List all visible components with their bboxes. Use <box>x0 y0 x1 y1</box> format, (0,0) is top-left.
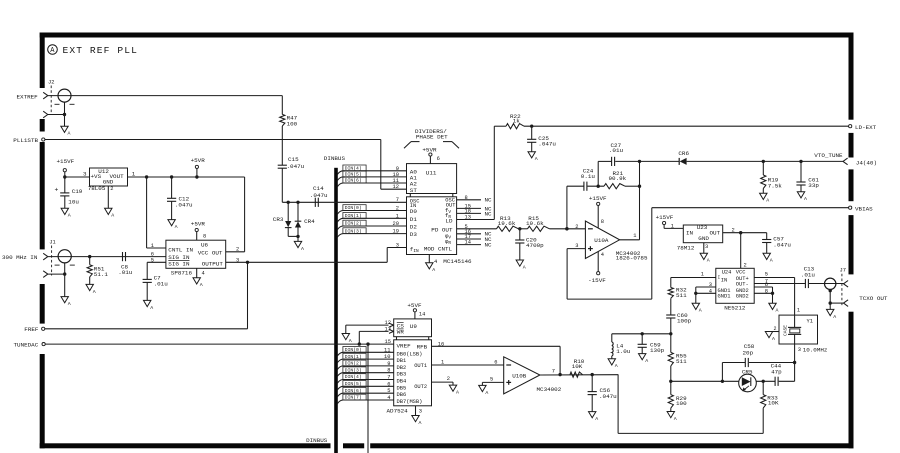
svg-text:NC: NC <box>485 242 493 249</box>
svg-text:33p: 33p <box>808 182 819 189</box>
svg-text:90.9k: 90.9k <box>609 175 627 182</box>
svg-text:.01u: .01u <box>154 280 169 287</box>
svg-text:A: A <box>68 301 71 307</box>
svg-text:A: A <box>699 308 702 314</box>
svg-text:GND1: GND1 <box>718 294 731 300</box>
svg-text:A: A <box>432 267 435 273</box>
svg-text:A: A <box>68 131 71 137</box>
svg-text:511: 511 <box>676 292 687 299</box>
svg-text:+5VF: +5VF <box>407 302 422 309</box>
svg-text:DB7(MSB): DB7(MSB) <box>397 399 423 405</box>
svg-text:U9: U9 <box>410 323 418 330</box>
svg-text:4: 4 <box>434 259 437 265</box>
svg-text:DB3: DB3 <box>397 372 407 378</box>
svg-text:NE5212: NE5212 <box>724 305 746 312</box>
svg-text:1.0u: 1.0u <box>616 348 631 355</box>
svg-text:1: 1 <box>441 359 444 365</box>
svg-text:A: A <box>349 338 352 344</box>
svg-text:U24: U24 <box>722 269 732 275</box>
svg-text:+VS: +VS <box>91 173 102 180</box>
svg-text:A: A <box>93 289 96 295</box>
svg-text:A: A <box>595 416 598 422</box>
svg-text:D1: D1 <box>410 216 418 223</box>
svg-text:SP8716: SP8716 <box>171 270 193 277</box>
svg-text:78L05: 78L05 <box>88 185 106 192</box>
svg-text:FREF: FREF <box>24 326 39 333</box>
svg-text:A: A <box>770 258 773 264</box>
svg-text:2: 2 <box>236 247 239 253</box>
svg-text:+5VR: +5VR <box>191 157 206 164</box>
svg-text:U6: U6 <box>201 242 209 249</box>
svg-text:3: 3 <box>798 347 801 353</box>
svg-text:1: 1 <box>132 170 136 177</box>
svg-text:100: 100 <box>287 120 298 127</box>
svg-text:.047u: .047u <box>287 163 305 170</box>
svg-text:7: 7 <box>387 375 390 381</box>
svg-text:A: A <box>150 305 153 311</box>
svg-text:13: 13 <box>385 326 391 332</box>
svg-text:8: 8 <box>387 368 390 374</box>
svg-text:+: + <box>55 187 59 194</box>
svg-text:MC145146: MC145146 <box>443 258 472 265</box>
svg-text:DIN(3): DIN(3) <box>345 367 362 373</box>
svg-text:4: 4 <box>202 271 205 277</box>
svg-text:DB4: DB4 <box>397 379 407 385</box>
svg-text:10: 10 <box>393 172 399 178</box>
svg-text:10.0MHz: 10.0MHz <box>803 346 828 353</box>
svg-text:19.6k: 19.6k <box>526 220 544 227</box>
svg-text:C19: C19 <box>72 188 83 195</box>
svg-text:-15VF: -15VF <box>588 277 606 284</box>
svg-text:2: 2 <box>744 262 747 268</box>
svg-text:DIN(2): DIN(2) <box>345 361 362 367</box>
svg-text:J1: J1 <box>49 240 55 246</box>
svg-text:1: 1 <box>151 243 154 249</box>
svg-text:19: 19 <box>393 229 399 235</box>
svg-text:CNTL IN: CNTL IN <box>168 246 193 253</box>
svg-text:A: A <box>772 336 775 342</box>
svg-text:A: A <box>766 198 769 204</box>
svg-text:J7: J7 <box>840 268 846 274</box>
svg-text:OUT-: OUT- <box>736 282 749 288</box>
svg-text:A: A <box>301 246 304 252</box>
svg-text:A: A <box>645 358 648 364</box>
svg-text:19.6k: 19.6k <box>498 220 516 227</box>
svg-text:1: 1 <box>633 233 636 239</box>
svg-text:DIN(5): DIN(5) <box>345 381 362 387</box>
svg-text:RFB: RFB <box>417 344 428 351</box>
svg-text:10K: 10K <box>572 363 583 370</box>
svg-text:NC: NC <box>485 197 493 204</box>
svg-text:4700p: 4700p <box>526 242 544 249</box>
svg-text:6: 6 <box>494 359 497 365</box>
svg-text:DINBUS: DINBUS <box>324 155 346 162</box>
svg-text:2: 2 <box>447 376 450 382</box>
svg-text:A: A <box>615 363 618 369</box>
svg-text:.047u: .047u <box>175 202 193 209</box>
svg-text:2: 2 <box>732 227 735 233</box>
svg-text:100p: 100p <box>677 318 692 325</box>
svg-text:.047u: .047u <box>538 140 556 147</box>
svg-text:DIN(4): DIN(4) <box>345 374 362 380</box>
svg-text:DIN(6): DIN(6) <box>345 388 362 394</box>
svg-text:TUNEDAC: TUNEDAC <box>14 342 39 349</box>
svg-text:A: A <box>523 264 526 270</box>
svg-text:2: 2 <box>110 186 113 192</box>
svg-text:100: 100 <box>676 400 687 407</box>
svg-text:VCC: VCC <box>736 269 746 275</box>
svg-text:78M12: 78M12 <box>677 244 695 251</box>
svg-text:5: 5 <box>387 388 390 394</box>
svg-text:7.5k: 7.5k <box>768 182 783 189</box>
svg-text:4: 4 <box>601 252 604 258</box>
svg-text:DIN(3): DIN(3) <box>345 228 362 234</box>
svg-text:8: 8 <box>203 233 206 239</box>
svg-text:51.1: 51.1 <box>94 271 109 278</box>
svg-text:A: A <box>485 390 488 396</box>
svg-text:1826-0785: 1826-0785 <box>616 255 648 262</box>
svg-text:9: 9 <box>387 361 390 367</box>
svg-text:OUT2: OUT2 <box>414 384 427 390</box>
svg-text:5: 5 <box>765 272 768 278</box>
svg-text:VTO_TUNE: VTO_TUNE <box>814 152 843 159</box>
svg-text:PD OUT: PD OUT <box>431 226 453 233</box>
svg-text:CR3: CR3 <box>273 216 284 223</box>
svg-text:6: 6 <box>437 156 440 162</box>
svg-text:130p: 130p <box>650 347 665 354</box>
svg-text:A: A <box>804 196 807 202</box>
svg-text:D0: D0 <box>410 208 418 215</box>
svg-text:5: 5 <box>490 377 493 383</box>
svg-text:DB0(LSB): DB0(LSB) <box>397 351 423 357</box>
svg-text:DB5: DB5 <box>397 385 407 391</box>
svg-text:3: 3 <box>83 170 87 177</box>
svg-text:EXT REF PLL: EXT REF PLL <box>63 45 138 56</box>
svg-text:ST: ST <box>410 187 418 194</box>
svg-text:LD-EXT: LD-EXT <box>855 124 877 131</box>
svg-text:+5VR: +5VR <box>191 221 206 228</box>
svg-text:U10A: U10A <box>594 237 609 244</box>
svg-text:0.1u: 0.1u <box>581 173 596 180</box>
svg-text:WR: WR <box>397 329 405 336</box>
svg-text:SIG IN: SIG IN <box>168 261 190 268</box>
svg-text:A: A <box>175 224 178 230</box>
svg-text:DIN(5): DIN(5) <box>345 172 362 178</box>
svg-text:20p: 20p <box>743 349 754 356</box>
svg-text:.01u: .01u <box>609 147 624 154</box>
svg-text:A: A <box>535 156 538 162</box>
svg-text:A: A <box>200 282 203 288</box>
svg-text:DIN(6): DIN(6) <box>345 178 362 184</box>
svg-text:7: 7 <box>552 369 555 375</box>
svg-text:DIN(0): DIN(0) <box>345 205 362 211</box>
svg-text:A: A <box>707 258 710 264</box>
svg-text:3: 3 <box>396 242 399 248</box>
svg-text:OUTPUT: OUTPUT <box>202 261 224 268</box>
svg-text:6: 6 <box>387 381 390 387</box>
svg-text:9: 9 <box>396 166 399 172</box>
svg-text:3: 3 <box>575 243 578 249</box>
svg-text:DIN(7): DIN(7) <box>345 395 362 401</box>
svg-text:20: 20 <box>393 221 399 227</box>
svg-text:A: A <box>833 314 836 320</box>
svg-text:Y1: Y1 <box>807 318 813 324</box>
svg-text:MC34002: MC34002 <box>537 386 562 393</box>
svg-text:+5VR: +5VR <box>422 146 437 153</box>
svg-text:3: 3 <box>705 244 708 250</box>
svg-text:CR5: CR5 <box>742 369 753 376</box>
svg-text:CR4: CR4 <box>304 218 315 225</box>
svg-text:.047u: .047u <box>310 192 328 199</box>
svg-text:+15VF: +15VF <box>57 158 75 165</box>
svg-text:1: 1 <box>396 213 399 219</box>
svg-text:.01u: .01u <box>118 269 133 276</box>
svg-text:J2: J2 <box>48 80 54 86</box>
svg-text:A: A <box>776 308 779 314</box>
svg-text:VREF: VREF <box>397 342 412 349</box>
svg-text:.01u: .01u <box>801 272 816 279</box>
svg-text:.047u: .047u <box>599 393 617 400</box>
svg-text:DIN(2): DIN(2) <box>345 221 362 227</box>
svg-text:DIN(4): DIN(4) <box>345 166 362 172</box>
svg-text:CR6: CR6 <box>678 150 689 157</box>
svg-text:LD: LD <box>445 218 453 225</box>
svg-text:DB6: DB6 <box>397 392 407 398</box>
svg-text:12: 12 <box>393 184 399 190</box>
svg-text:VBIAS: VBIAS <box>855 205 873 212</box>
svg-text:DINBUS: DINBUS <box>306 437 328 444</box>
svg-text:+15VF: +15VF <box>656 214 674 221</box>
svg-text:AD7524: AD7524 <box>387 408 409 415</box>
svg-text:U23: U23 <box>697 224 708 231</box>
svg-text:10u: 10u <box>68 198 79 205</box>
svg-text:10: 10 <box>384 354 390 360</box>
svg-text:PHASE DET: PHASE DET <box>416 134 448 141</box>
svg-text:DIN(1): DIN(1) <box>345 213 362 219</box>
svg-text:A: A <box>111 213 114 219</box>
svg-text:A: A <box>68 213 71 219</box>
svg-text:1: 1 <box>797 307 800 313</box>
svg-text:CASE: CASE <box>782 325 788 336</box>
svg-text:U10B: U10B <box>512 372 527 379</box>
svg-text:D2: D2 <box>410 224 418 231</box>
svg-text:300 MHz IN: 300 MHz IN <box>2 254 38 261</box>
svg-text:GND2: GND2 <box>736 294 749 300</box>
svg-text:A: A <box>674 416 677 422</box>
svg-text:IN: IN <box>686 229 694 236</box>
svg-text:511: 511 <box>676 358 687 365</box>
svg-text:+15VF: +15VF <box>589 195 607 202</box>
svg-text:A: A <box>456 390 459 396</box>
svg-text:MOD CNTL: MOD CNTL <box>424 246 453 253</box>
svg-text:GND: GND <box>698 235 709 242</box>
svg-text:OUT1: OUT1 <box>414 363 427 369</box>
svg-text:10K: 10K <box>768 400 779 407</box>
svg-text:IN: IN <box>721 277 727 283</box>
svg-text:J4(40): J4(40) <box>856 159 877 166</box>
svg-text:15: 15 <box>385 339 391 345</box>
svg-text:1: 1 <box>701 272 704 278</box>
svg-text:14: 14 <box>419 312 425 318</box>
svg-text:DIN(1): DIN(1) <box>345 354 362 360</box>
svg-text:A: A <box>419 420 422 426</box>
svg-text:1: 1 <box>671 223 674 229</box>
svg-text:2: 2 <box>774 326 777 332</box>
svg-text:12: 12 <box>385 320 391 326</box>
svg-text:2: 2 <box>575 224 578 230</box>
svg-text:OUT: OUT <box>710 229 721 236</box>
svg-text:D3: D3 <box>410 231 418 238</box>
svg-text:4: 4 <box>387 395 390 401</box>
svg-text:11: 11 <box>384 347 390 353</box>
svg-text:PLL1STB: PLL1STB <box>13 137 38 144</box>
svg-text:DB1: DB1 <box>397 358 407 364</box>
svg-text:2: 2 <box>396 206 399 212</box>
svg-text:47p: 47p <box>771 368 782 375</box>
svg-text:.047u: .047u <box>773 242 791 249</box>
svg-text:8: 8 <box>601 219 604 225</box>
svg-text:EXTREF: EXTREF <box>17 93 39 100</box>
svg-text:U11: U11 <box>426 170 437 177</box>
svg-text:VCC OUT: VCC OUT <box>198 250 223 257</box>
svg-text:3: 3 <box>419 409 422 415</box>
svg-text:DB2: DB2 <box>397 365 407 371</box>
svg-text:1k: 1k <box>513 118 521 125</box>
svg-text:11: 11 <box>393 178 399 184</box>
svg-text:NC: NC <box>485 210 493 217</box>
svg-text:TCXO OUT: TCXO OUT <box>859 295 888 302</box>
svg-text:DIN(0): DIN(0) <box>345 347 362 353</box>
